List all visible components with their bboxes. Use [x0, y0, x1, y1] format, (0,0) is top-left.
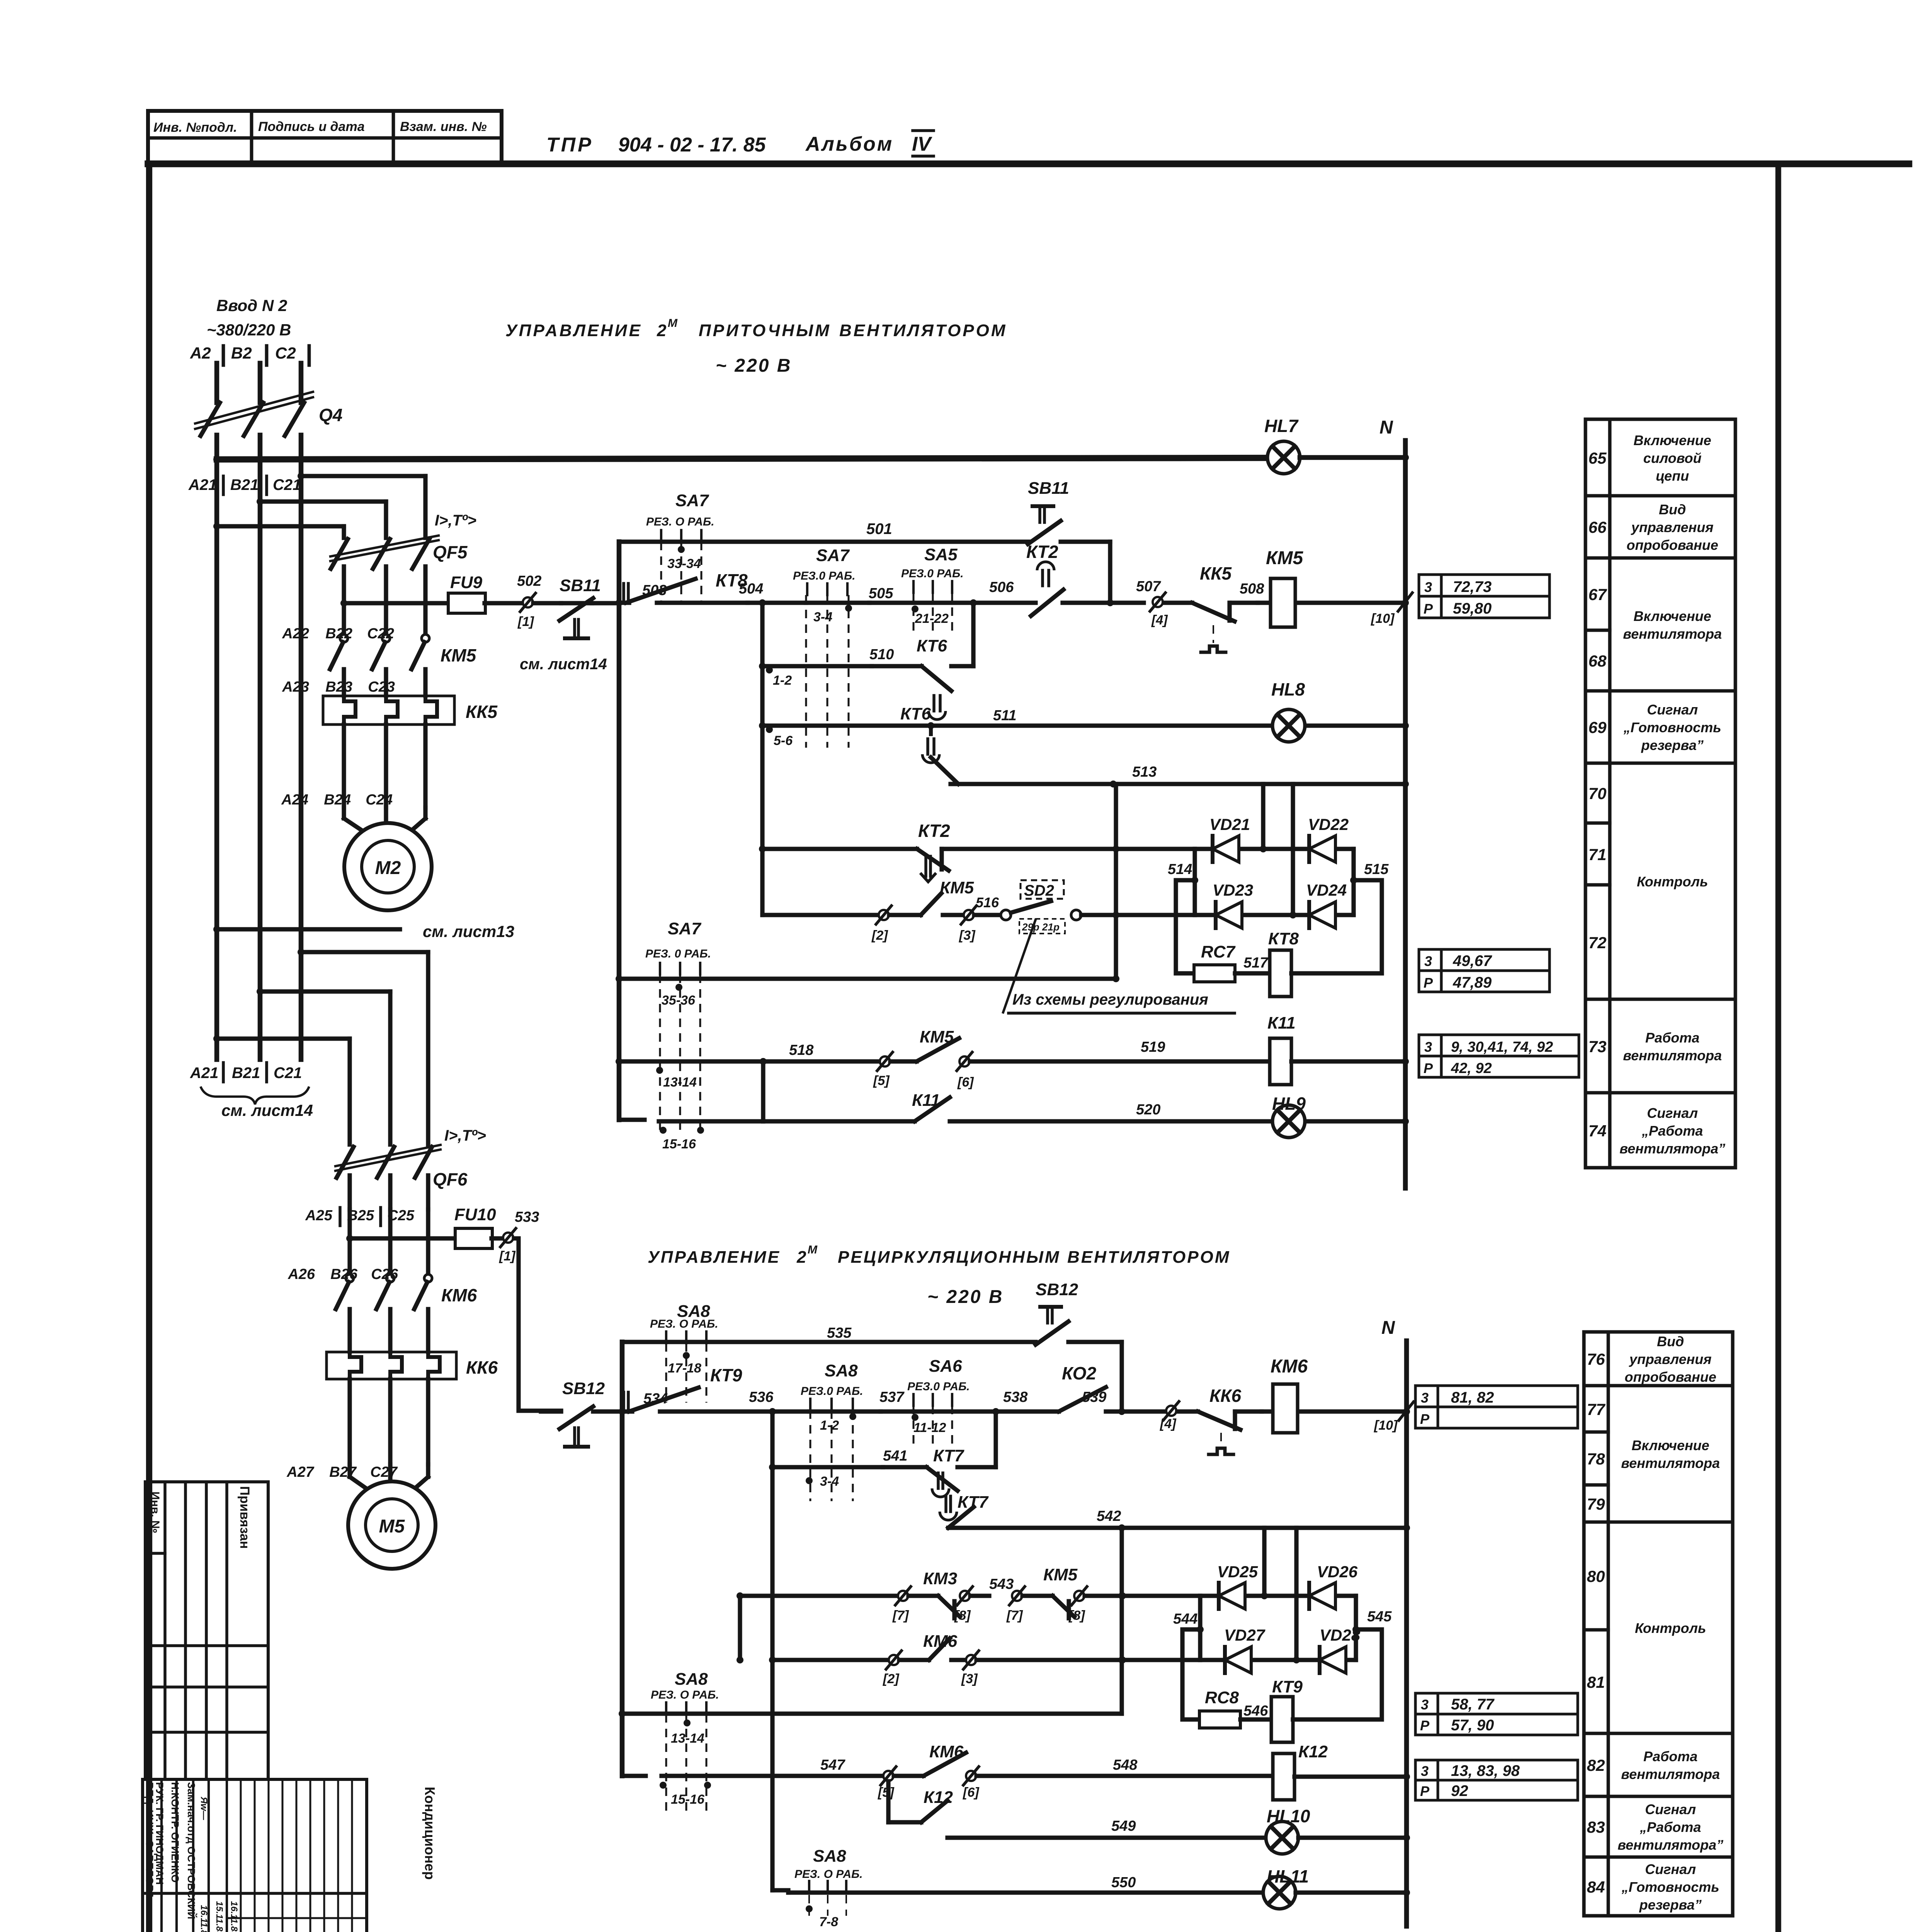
svg-text:IV: IV — [912, 133, 932, 155]
svg-text:вентилятора: вентилятора — [1623, 1048, 1722, 1063]
svg-text:резерва”: резерва” — [1641, 737, 1703, 753]
svg-text:508: 508 — [1240, 581, 1264, 597]
wire B21 tap to QF5 pole B — [260, 499, 386, 503]
rung 547-548 coil K12 — [622, 1774, 646, 1778]
svg-text:3: 3 — [1421, 1763, 1429, 1779]
svg-text:SA8: SA8 — [813, 1847, 846, 1866]
svg-text:см. лист14: см. лист14 — [221, 1101, 313, 1119]
svg-text:533: 533 — [515, 1209, 539, 1225]
wire C21 tap to QF6 pole C — [298, 949, 304, 956]
fine revision grid — [240, 1779, 242, 1932]
svg-text:М5: М5 — [379, 1516, 405, 1537]
function table circuit 2 rows 76-84 — [1584, 1332, 1733, 1916]
svg-text:КТ8: КТ8 — [1268, 929, 1299, 948]
svg-text:519: 519 — [1141, 1039, 1165, 1055]
svg-text:13, 83, 98: 13, 83, 98 — [1451, 1762, 1520, 1779]
svg-text:73: 73 — [1589, 1037, 1607, 1056]
svg-text:7-8: 7-8 — [819, 1915, 838, 1929]
svg-text:[6]: [6] — [963, 1785, 980, 1800]
phase separator ticks — [222, 346, 225, 365]
svg-text:вентилятора”: вентилятора” — [1619, 1141, 1725, 1156]
rung 520 lamp HL9 — [619, 1117, 645, 1122]
svg-text:А21: А21 — [188, 476, 217, 493]
resistor RC8 — [1199, 1711, 1240, 1728]
svg-text:Работа: Работа — [1645, 1030, 1699, 1046]
svg-text:КМ6: КМ6 — [929, 1742, 964, 1761]
rung 501: selector SA7 33-34 and button SB11 — [619, 539, 1029, 544]
svg-text:VD27: VD27 — [1224, 1626, 1266, 1644]
svg-text:КМ6: КМ6 — [1271, 1356, 1308, 1377]
svg-text:А23: А23 — [282, 679, 309, 695]
svg-text:КТ6: КТ6 — [917, 636, 947, 655]
svg-text:518: 518 — [789, 1042, 814, 1058]
left rail circuit 2 — [620, 1342, 625, 1776]
wire B21 tap to QF6 pole B — [257, 988, 264, 995]
svg-text:SA7: SA7 — [668, 919, 702, 938]
svg-text:FU9: FU9 — [450, 573, 483, 592]
svg-text:[1]: [1] — [517, 614, 534, 629]
svg-text:72,73: 72,73 — [1453, 578, 1492, 595]
svg-text:КМ5: КМ5 — [940, 878, 974, 897]
diode VD25 — [1217, 1583, 1221, 1609]
svg-text:В24: В24 — [324, 792, 351, 808]
svg-text:504: 504 — [739, 581, 763, 597]
svg-text:КК6: КК6 — [1209, 1386, 1242, 1406]
svg-text:13-14: 13-14 — [663, 1075, 697, 1090]
diode VD22 — [1307, 836, 1311, 862]
svg-text:RC8: RC8 — [1205, 1688, 1239, 1707]
svg-text:„Готовность: „Готовность — [1621, 1879, 1720, 1895]
svg-text:А26: А26 — [287, 1266, 315, 1282]
svg-text:С25: С25 — [387, 1207, 415, 1224]
bridge feed verticals — [1261, 784, 1265, 849]
svg-text:КТ2: КТ2 — [1026, 542, 1058, 562]
svg-text:Р: Р — [1420, 1718, 1430, 1733]
svg-text:КО2: КО2 — [1062, 1363, 1096, 1383]
rung KM3 KM5 aux contacts — [737, 1592, 743, 1599]
fuse FU10 — [346, 1235, 353, 1242]
svg-text:ПРИТОЧНЫМ: ПРИТОЧНЫМ — [699, 321, 831, 340]
svg-text:РЕЗ.0 РАБ.: РЕЗ.0 РАБ. — [793, 570, 856, 582]
motor M2 — [342, 808, 346, 818]
svg-text:РЕЗ.0 РАБ.: РЕЗ.0 РАБ. — [901, 567, 964, 580]
branch vertical from node 504 — [760, 603, 764, 849]
svg-text:вентилятора”: вентилятора” — [1618, 1837, 1723, 1853]
svg-text:71: 71 — [1589, 845, 1607, 864]
svg-text:Включение: Включение — [1633, 432, 1711, 448]
svg-text:49,67: 49,67 — [1453, 952, 1492, 969]
svg-text:SB11: SB11 — [560, 576, 601, 595]
function table circuit 1 rows 65-74 — [1585, 419, 1735, 1168]
rung KM6 aux 2-3 — [772, 1658, 889, 1662]
plug contact 533 — [503, 1233, 513, 1243]
svg-text:М: М — [668, 317, 678, 330]
svg-text:QF6: QF6 — [433, 1169, 468, 1189]
svg-text:Работа: Работа — [1643, 1748, 1698, 1764]
plug contact rung 539 — [1166, 1406, 1176, 1416]
svg-text:[1]: [1] — [499, 1249, 516, 1264]
svg-text:Сигнал: Сигнал — [1647, 1105, 1698, 1121]
circuit breaker QF5 — [331, 539, 348, 569]
svg-text:549: 549 — [1111, 1818, 1136, 1834]
auxiliary contact KM5 rung 518 — [880, 1056, 890, 1066]
svg-text:управления: управления — [1629, 1351, 1712, 1367]
lamp HL10 — [1266, 1821, 1298, 1854]
svg-text:SB12: SB12 — [1036, 1280, 1078, 1299]
svg-text:70: 70 — [1589, 784, 1607, 803]
diode VD24 — [1307, 902, 1311, 928]
wire 535 corner down — [1119, 1342, 1124, 1412]
svg-text:VD24: VD24 — [1306, 881, 1347, 899]
rung 13-14 circuit2 — [619, 1710, 626, 1717]
relay coil K12 — [1273, 1753, 1294, 1800]
svg-text:[3]: [3] — [961, 1672, 978, 1686]
svg-text:В25: В25 — [347, 1207, 374, 1224]
svg-text:С21: С21 — [273, 476, 301, 493]
svg-text:КМ3: КМ3 — [923, 1569, 957, 1588]
svg-text:543: 543 — [989, 1576, 1014, 1592]
svg-text:HL9: HL9 — [1272, 1094, 1306, 1114]
svg-text:VD23: VD23 — [1213, 881, 1253, 899]
svg-text:16.11.83: 16.11.83 — [229, 1901, 239, 1932]
svg-text:SA5: SA5 — [924, 545, 958, 564]
svg-text:538: 538 — [1003, 1389, 1028, 1405]
svg-text:3-4: 3-4 — [813, 610, 832, 624]
cross reference table KM5 — [1419, 575, 1441, 596]
svg-text:РЕЗ. О РАБ.: РЕЗ. О РАБ. — [646, 515, 714, 528]
circuit breaker QF6 — [337, 1147, 354, 1178]
node 544 — [1197, 1626, 1204, 1633]
rung 513 — [951, 782, 1405, 786]
diode VD23 — [1214, 902, 1218, 928]
svg-text:SA6: SA6 — [929, 1357, 962, 1376]
svg-text:11-12: 11-12 — [913, 1420, 946, 1435]
thermal overload relay KK5 — [323, 696, 454, 724]
svg-text:Р: Р — [1420, 1411, 1430, 1427]
rung 542 — [948, 1526, 1407, 1530]
lamp HL11 — [1263, 1876, 1296, 1909]
junction dots A21 B21 C21 — [213, 456, 220, 463]
svg-text:Взам. инв. №: Взам. инв. № — [400, 119, 487, 134]
phase bus A21 vertical — [214, 363, 219, 403]
contactor coil KM5 — [1258, 600, 1405, 605]
svg-text:502: 502 — [517, 573, 541, 589]
diode VD27 — [1223, 1647, 1227, 1673]
svg-text:Яw—: Яw— — [199, 1796, 209, 1820]
sheet frame left border — [146, 164, 152, 1932]
svg-text:Р: Р — [1424, 975, 1433, 991]
svg-text:С21: С21 — [274, 1065, 302, 1082]
svg-text:QF5: QF5 — [433, 542, 468, 562]
svg-text:545: 545 — [1367, 1609, 1392, 1625]
svg-text:HL10: HL10 — [1267, 1806, 1310, 1826]
inventory table upper left column — [145, 1482, 268, 1779]
diode bridge VD25-VD28 — [1198, 1596, 1202, 1660]
motor M5 — [347, 1464, 352, 1477]
svg-text:Вид: Вид — [1657, 1333, 1684, 1349]
svg-text:513: 513 — [1132, 764, 1157, 780]
svg-text:КТ2: КТ2 — [918, 821, 950, 841]
svg-text:Привязан: Привязан — [237, 1486, 252, 1549]
svg-text:Ввод N 2: Ввод N 2 — [216, 296, 287, 315]
disconnector Q4 — [201, 403, 220, 436]
svg-text:КК6: КК6 — [466, 1357, 498, 1378]
svg-text:16.11.83: 16.11.83 — [199, 1905, 209, 1932]
wire see sheet 13 — [213, 926, 220, 933]
svg-text:SA7: SA7 — [675, 491, 709, 510]
svg-text:546: 546 — [1243, 1703, 1268, 1719]
svg-text:С26: С26 — [371, 1266, 398, 1282]
svg-text:N: N — [1379, 417, 1393, 438]
node 536 junction — [769, 1408, 776, 1415]
node 545 — [1352, 1626, 1359, 1633]
neutral bus N circuit 2 — [1404, 1341, 1409, 1926]
rung 503-508: main coil rung — [616, 599, 623, 606]
svg-text:[5]: [5] — [873, 1073, 890, 1088]
svg-text:[4]: [4] — [1160, 1417, 1177, 1431]
switch SD2 from regulation circuit — [1001, 910, 1011, 920]
svg-text:Вид: Вид — [1659, 502, 1686, 517]
svg-text:РЕЦИРКУЛЯЦИОННЫМ: РЕЦИРКУЛЯЦИОННЫМ — [838, 1248, 1061, 1267]
svg-text:516: 516 — [976, 895, 999, 910]
diode VD26 — [1307, 1583, 1311, 1609]
phase bus C21 vertical — [299, 363, 304, 403]
svg-text:УПРАВЛЕНИЕ: УПРАВЛЕНИЕ — [505, 321, 642, 340]
svg-text:1-2: 1-2 — [820, 1418, 839, 1433]
svg-text:С2: С2 — [275, 344, 296, 362]
svg-text:I>,Tº>: I>,Tº> — [444, 1127, 486, 1144]
svg-text:силовой: силовой — [1643, 450, 1702, 466]
svg-text:[7]: [7] — [1006, 1608, 1023, 1623]
leader line from SD2 — [1003, 920, 1036, 1012]
svg-text:„Работа: „Работа — [1640, 1819, 1701, 1835]
svg-text:517: 517 — [1243, 955, 1269, 971]
svg-text:77: 77 — [1587, 1400, 1606, 1418]
svg-text:вентилятора: вентилятора — [1621, 1766, 1720, 1782]
svg-text:514: 514 — [1168, 861, 1192, 878]
cross reference table KM6 — [1415, 1386, 1438, 1407]
svg-text:Q4: Q4 — [319, 405, 342, 425]
left rail circuit 1 — [617, 542, 622, 1120]
svg-text:Подпись и дата: Подпись и дата — [258, 119, 365, 134]
svg-text:904 - 02 - 17. 85: 904 - 02 - 17. 85 — [618, 134, 766, 156]
svg-text:Кондиционер: Кондиционер — [422, 1787, 438, 1880]
pushbutton SB11 supply side — [533, 601, 561, 605]
svg-text:541: 541 — [883, 1448, 907, 1464]
svg-text:В26: В26 — [330, 1266, 358, 1282]
svg-text:VD21: VD21 — [1209, 815, 1250, 833]
sheet frame top border — [148, 160, 1909, 167]
svg-text:РЕЗ. О РАБ.: РЕЗ. О РАБ. — [794, 1868, 863, 1881]
svg-text:RC7: RC7 — [1201, 942, 1236, 961]
svg-text:58, 77: 58, 77 — [1451, 1696, 1495, 1713]
rung KT2 auxiliary — [759, 845, 766, 852]
svg-text:515: 515 — [1364, 861, 1389, 878]
svg-text:59,80: 59,80 — [1453, 600, 1492, 617]
svg-text:ВЕНТИЛЯТОРОМ: ВЕНТИЛЯТОРОМ — [1067, 1248, 1230, 1267]
svg-text:В23: В23 — [325, 679, 352, 695]
svg-text:536: 536 — [749, 1389, 774, 1405]
svg-text:1-2: 1-2 — [773, 673, 792, 688]
svg-text:ВЕНТИЛЯТОРОМ: ВЕНТИЛЯТОРОМ — [839, 321, 1007, 340]
svg-text:вентилятора: вентилятора — [1621, 1455, 1720, 1471]
svg-text:В21: В21 — [232, 1065, 260, 1082]
svg-text:М: М — [808, 1243, 818, 1256]
svg-text:А25: А25 — [305, 1207, 333, 1224]
svg-text:ВЕД. ИНЖ. САВЕЛОВА: ВЕД. ИНЖ. САВЕЛОВА — [144, 1782, 155, 1900]
svg-text:506: 506 — [989, 579, 1014, 595]
lamp HL7 — [1267, 441, 1300, 474]
svg-text:520: 520 — [1136, 1102, 1160, 1118]
svg-text:3: 3 — [1424, 953, 1432, 969]
fuse FU9 — [340, 600, 347, 607]
bridge2 feed verticals — [1262, 1528, 1266, 1596]
svg-text:SB12: SB12 — [562, 1379, 605, 1398]
svg-text:539: 539 — [1082, 1389, 1106, 1405]
svg-text:М2: М2 — [375, 858, 401, 878]
svg-text:SA8: SA8 — [825, 1361, 858, 1380]
svg-text:[7]: [7] — [892, 1608, 909, 1623]
contactor KM5 main contacts — [342, 604, 346, 634]
svg-text:КМ5: КМ5 — [920, 1027, 954, 1046]
contactor coil KM6 — [1262, 1409, 1407, 1413]
svg-text:67: 67 — [1589, 585, 1607, 604]
svg-text:5-6: 5-6 — [774, 733, 793, 748]
svg-text:РЕЗ. 0 РАБ.: РЕЗ. 0 РАБ. — [645, 947, 711, 960]
node 515 — [1350, 877, 1357, 884]
svg-text:SD2: SD2 — [1024, 882, 1054, 899]
branch vertical from node 536 — [770, 1412, 774, 1890]
phase bus B21 vertical — [258, 363, 263, 403]
svg-text:72: 72 — [1589, 934, 1607, 952]
svg-text:[8]: [8] — [1068, 1608, 1085, 1623]
svg-text:КМ6: КМ6 — [441, 1285, 477, 1305]
vertical KM3 rung feed — [738, 1596, 742, 1660]
svg-text:SB11: SB11 — [1028, 479, 1069, 498]
relay contact KT8 — [619, 600, 629, 605]
rung 535 selector SA8 17-18 and button SB12 — [622, 1340, 1036, 1344]
vertical link 513 to rung 35-36 — [1114, 784, 1118, 979]
wire C21 tap to QF5 pole C — [301, 474, 425, 478]
svg-text:Сигнал: Сигнал — [1647, 702, 1698, 718]
svg-text:FU10: FU10 — [454, 1205, 496, 1224]
wire A21 tap to QF5 pole A — [217, 524, 344, 528]
svg-text:507: 507 — [1136, 578, 1161, 595]
svg-text:42, 92: 42, 92 — [1451, 1060, 1492, 1077]
svg-text:ТПР: ТПР — [546, 134, 594, 156]
plug contact 502 — [523, 597, 533, 607]
svg-text:503: 503 — [642, 582, 667, 599]
node 514 — [1191, 877, 1198, 884]
time relay coil KT9 — [1271, 1697, 1293, 1742]
svg-text:[8]: [8] — [954, 1608, 971, 1623]
svg-text:Включение: Включение — [1633, 608, 1711, 624]
wire 533 to SB12 — [514, 1238, 561, 1411]
diode bridge VD21-VD24 — [1192, 849, 1197, 915]
svg-text:15-16: 15-16 — [662, 1137, 696, 1151]
svg-text:535: 535 — [827, 1325, 852, 1341]
svg-text:547: 547 — [820, 1757, 845, 1773]
svg-text:537: 537 — [879, 1389, 905, 1405]
underbrace see sheet 14 — [201, 1087, 309, 1104]
svg-text:[3]: [3] — [959, 928, 976, 943]
svg-text:534: 534 — [643, 1391, 668, 1407]
svg-text:3: 3 — [1424, 1039, 1432, 1055]
svg-text:Зам.нач.отд ОСТРОВСКИЙ: Зам.нач.отд ОСТРОВСКИЙ — [185, 1782, 197, 1919]
rung 511 to lamp HL8 — [762, 723, 1272, 728]
svg-text:3-4: 3-4 — [820, 1474, 839, 1489]
svg-text:15-16: 15-16 — [671, 1792, 705, 1807]
svg-text:33-34: 33-34 — [667, 556, 701, 571]
svg-text:Н.КОНТР. ОГИЕНКО: Н.КОНТР. ОГИЕНКО — [169, 1782, 181, 1883]
relay contact KT9 — [622, 1409, 632, 1413]
svg-text:С27: С27 — [370, 1464, 398, 1480]
svg-text:КМ5: КМ5 — [441, 645, 477, 665]
svg-text:542: 542 — [1097, 1508, 1121, 1524]
cross reference table K11 — [1419, 1035, 1441, 1056]
svg-text:HL8: HL8 — [1271, 679, 1305, 699]
svg-text:544: 544 — [1173, 1611, 1197, 1627]
contactor KM6 main contacts — [347, 1209, 352, 1274]
svg-text:Контроль: Контроль — [1637, 874, 1708, 889]
svg-text:83: 83 — [1587, 1818, 1605, 1836]
svg-text:Р: Р — [1420, 1783, 1430, 1799]
svg-text:66: 66 — [1589, 518, 1607, 536]
rung 65: phase to HL7 — [217, 458, 1267, 459]
svg-text:К12: К12 — [1298, 1742, 1328, 1761]
svg-text:[2]: [2] — [883, 1672, 900, 1686]
rung KM5 aux and SD2 — [760, 849, 764, 915]
svg-text:резерва”: резерва” — [1639, 1897, 1701, 1913]
wire A21 tap to QF6 pole A — [213, 1035, 220, 1042]
svg-text:К11: К11 — [912, 1091, 940, 1110]
svg-text:С23: С23 — [368, 679, 395, 695]
svg-text:510: 510 — [869, 646, 894, 663]
svg-text:КТ9: КТ9 — [1272, 1677, 1303, 1696]
rung 510 with KT6 contact — [762, 664, 872, 668]
svg-text:80: 80 — [1587, 1567, 1605, 1585]
rung 541 with KT7 — [772, 1465, 883, 1469]
svg-text:68: 68 — [1589, 652, 1607, 670]
svg-text:548: 548 — [1113, 1757, 1138, 1773]
svg-text:69: 69 — [1589, 718, 1607, 736]
diode VD28 — [1318, 1647, 1322, 1673]
svg-text:[6]: [6] — [957, 1075, 974, 1090]
RC7 and KT8 coil branch — [1176, 880, 1195, 973]
svg-text:А2: А2 — [190, 344, 211, 362]
svg-text:550: 550 — [1111, 1874, 1136, 1891]
lamp HL9 — [1272, 1105, 1305, 1138]
svg-text:Сигнал: Сигнал — [1645, 1861, 1696, 1877]
svg-text:35-36: 35-36 — [662, 993, 696, 1008]
svg-text:см. лист14: см. лист14 — [520, 656, 607, 673]
svg-text:КТ7: КТ7 — [933, 1446, 964, 1465]
svg-text:65: 65 — [1589, 449, 1607, 467]
svg-text:опробование: опробование — [1626, 537, 1718, 553]
node 504 junction — [759, 599, 766, 606]
time relay contact KT6 second — [927, 722, 934, 729]
svg-text:опробование: опробование — [1624, 1369, 1716, 1385]
resistor RC7 — [1194, 965, 1235, 982]
relay coil K11 — [1270, 1038, 1291, 1085]
svg-text:HL7: HL7 — [1264, 416, 1299, 436]
svg-text:см. лист13: см. лист13 — [423, 922, 514, 940]
rung 35-36 — [616, 975, 623, 982]
svg-text:SA7: SA7 — [816, 546, 850, 565]
svg-text:КМ5: КМ5 — [1043, 1565, 1078, 1584]
node 538 junction — [992, 1408, 999, 1415]
stamp table top-left — [148, 111, 502, 164]
